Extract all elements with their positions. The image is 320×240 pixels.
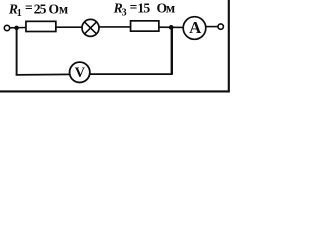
voltmeter U-V (circle) — [70, 62, 90, 82]
label R1 = 25 Ом — [8, 0, 68, 19]
node A (junction dot left) — [14, 26, 19, 31]
label R3 = 15 Ом — [113, 0, 175, 18]
wire bottom left to voltmeter — [16, 73, 70, 76]
svg-text:Ом: Ом — [157, 0, 175, 15]
wire R3 to ammeter — [159, 26, 183, 28]
svg-text:3: 3 — [122, 7, 127, 18]
svg-text:=: = — [130, 0, 138, 15]
wire right drop (node B down) — [171, 27, 173, 74]
terminal (left) — [4, 25, 9, 30]
page frame (right and bottom border) — [0, 0, 229, 91]
resistor R1 — [26, 21, 56, 31]
wire terminal to R1 — [10, 27, 27, 29]
svg-text:Ом: Ом — [49, 1, 68, 16]
svg-text:15: 15 — [137, 0, 150, 15]
svg-text:A: A — [189, 18, 201, 37]
lamp EL1 (cross stroke 2) — [85, 22, 97, 34]
svg-text:25: 25 — [34, 1, 47, 16]
svg-text:V: V — [75, 65, 86, 81]
wire ammeter to right terminal — [206, 26, 218, 28]
terminal (right) — [218, 24, 223, 29]
wire R1 to lamp — [56, 26, 82, 28]
node B (junction dot right) — [169, 25, 174, 30]
wire left drop (node A down) — [16, 28, 18, 75]
wire voltmeter to right drop — [90, 73, 172, 75]
svg-text:1: 1 — [17, 8, 22, 19]
resistor R3 — [131, 21, 159, 31]
svg-text:=: = — [25, 0, 33, 15]
lamp EL1 (cross stroke 1) — [85, 22, 97, 34]
wire lamp to R3 — [100, 26, 131, 28]
lamp EL1 (circle) — [82, 19, 99, 36]
ammeter U-A (circle) — [183, 17, 206, 40]
